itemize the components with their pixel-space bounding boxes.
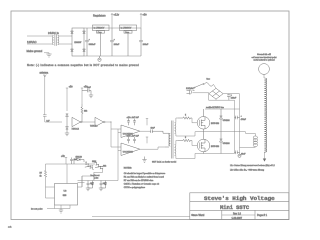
- wire sec2 to R2: [176, 141, 178, 145]
- wire halfbridge midpoint: [204, 132, 256, 136]
- +5v stub clamp: [66, 88, 68, 111]
- svg-text:Regulators: Regulators: [93, 13, 106, 17]
- svg-text:L1: 4 turns 22awg wound over b: L1: 4 turns 22awg wound over bottom (2in…: [230, 164, 276, 167]
- capacitor C6b: [133, 137, 136, 143]
- wire bottom rail: [205, 153, 235, 155]
- wire to mains ground: [44, 53, 49, 54]
- bridge rectifier BR1: [71, 28, 86, 56]
- svg-text:100uF: 100uF: [143, 44, 149, 46]
- svg-text:10k: 10k: [103, 166, 106, 168]
- wire U4 out: [140, 130, 151, 132]
- capacitor C5b: [133, 119, 136, 126]
- mosfet Q1: [197, 109, 210, 132]
- +12v tap: [111, 13, 113, 28]
- svg-text:+: +: [114, 39, 116, 41]
- capacitor C4 bypass: [82, 89, 91, 95]
- ground C4: [89, 95, 93, 98]
- wire sec2 return: [176, 154, 205, 159]
- wire mains top: [27, 35, 52, 37]
- diode D8: [88, 181, 94, 189]
- capacitor C3 100uF: [139, 28, 143, 56]
- resistor R4 pullup: [81, 104, 83, 122]
- capacitor C7 coupling: [151, 129, 165, 133]
- wire DC+ rail: [84, 27, 141, 29]
- regulator U2 L7805CV: [120, 25, 137, 56]
- svg-text:Com: Com: [98, 32, 102, 34]
- wire U5 out: [140, 147, 165, 149]
- wire T1 secondary top: [59, 35, 72, 37]
- svg-text:antenna: antenna: [40, 71, 49, 74]
- antenna symbol: [43, 75, 46, 78]
- node J1: [111, 122, 112, 123]
- driver U4 UCC37321: [121, 125, 140, 138]
- bridge rectifier BR2: [209, 88, 223, 99]
- wire BR2 minus: [209, 94, 235, 101]
- svg-text:1k: 1k: [40, 176, 42, 178]
- svg-text:+: +: [89, 39, 91, 41]
- wire G1 to G2: [82, 121, 95, 123]
- capacitor C11: [70, 158, 73, 165]
- svg-text:Mini SSTC: Mini SSTC: [220, 205, 250, 211]
- arrow to RF ground: [263, 159, 266, 162]
- svg-text:Com: Com: [125, 32, 129, 34]
- svg-text:Ground this off!: Ground this off!: [257, 53, 271, 56]
- svg-text:+: +: [231, 94, 233, 96]
- svg-text:C6 should be larger if possibl: C6 should be larger if possible as it im…: [124, 172, 165, 175]
- svg-text:rectified 170VDC bus: rectified 170VDC bus: [206, 106, 224, 109]
- wire signal bus: [111, 122, 121, 147]
- ground mains: [46, 54, 51, 57]
- +5v stub vcc: [81, 88, 83, 104]
- svg-text:IRFP450: IRFP450: [211, 146, 220, 148]
- diode D5 snubber: [220, 109, 223, 132]
- svg-text:Page # 1: Page # 1: [257, 214, 268, 217]
- svg-text:R7 and R8 can be 270/330 ohm: R7 and R8 can be 270/330 ohm: [124, 180, 154, 182]
- ground drivers: [142, 157, 146, 163]
- wire pots loop: [94, 162, 103, 172]
- svg-text:1-30-2007: 1-30-2007: [232, 218, 243, 220]
- wire interrupter out: [78, 181, 119, 183]
- wire neutral to bridge: [193, 92, 209, 95]
- diode D9: [101, 181, 107, 189]
- wire mains bottom: [27, 43, 52, 45]
- ground C13: [99, 188, 103, 191]
- wire T1 secondary bottom: [59, 43, 72, 45]
- GDT T2: [165, 121, 176, 159]
- diode D6 snubber: [220, 132, 223, 154]
- svg-text:+: +: [241, 116, 243, 118]
- svg-text:74HC14: 74HC14: [90, 125, 98, 127]
- svg-text:120VAC: 120VAC: [186, 87, 194, 90]
- wire antenna down: [43, 77, 62, 122]
- resistor R3: [44, 171, 46, 178]
- timer U3 555: [55, 184, 78, 206]
- svg-text:.1uF: .1uF: [87, 87, 92, 89]
- regulator U1 L7812CV: [93, 25, 110, 56]
- svg-text:Steve Ward: Steve Ward: [191, 214, 205, 217]
- capacitor C6a: [127, 137, 130, 143]
- svg-text:Note: (-) indicates a common n: Note: (-) indicates a common negative bu…: [27, 63, 139, 67]
- wire Vminus rail: [234, 100, 236, 153]
- svg-text:1N4148: 1N4148: [76, 157, 82, 159]
- svg-text:fuse: fuse: [207, 79, 211, 81]
- wire enable bus: [118, 129, 121, 181]
- driver U5 UCC37322: [121, 143, 140, 156]
- ground 555: [59, 210, 63, 213]
- svg-text:Steve's High Voltage: Steve's High Voltage: [204, 195, 275, 202]
- svg-text:int out point: int out point: [31, 207, 43, 210]
- wire G2 out: [105, 121, 111, 123]
- ground clamp: [65, 133, 69, 136]
- wire 555 ground: [60, 205, 62, 210]
- svg-text:UCC37322: UCC37322: [123, 152, 134, 154]
- wire Vplus rail: [239, 94, 241, 153]
- svg-text:+12v .1uF 1uF: +12v .1uF 1uF: [127, 117, 140, 119]
- svg-text:Mains ground: Mains ground: [27, 49, 43, 53]
- wire 555 top pin: [66, 164, 68, 184]
- capacitor C1 3300uF: [85, 28, 89, 56]
- inductor L2 secondary: [264, 78, 266, 152]
- wire sec1 to R1: [176, 118, 178, 123]
- diode D7: [74, 158, 84, 164]
- fuse F1: [204, 83, 213, 87]
- diode D1 clamp up: [66, 114, 69, 122]
- svg-text:IRFP450: IRFP450: [211, 123, 220, 125]
- wire pot down: [93, 172, 95, 180]
- wire int out stub: [47, 205, 70, 209]
- svg-text:10uF: 10uF: [151, 127, 156, 129]
- potentiometer VR2 10k: [93, 161, 104, 172]
- switch S1: [193, 83, 205, 90]
- capacitor C5a: [127, 119, 130, 126]
- svg-text:R1 and R2 can likely be omitte: R1 and R2 can likely be omitted from boa…: [124, 176, 165, 179]
- wire R2 to gate: [192, 141, 197, 146]
- wire R1 to gate: [192, 118, 197, 123]
- capacitor C10 bus: [235, 151, 240, 155]
- wire topload breakout: [263, 74, 265, 78]
- svg-text:metal natural is optional: metal natural is optional: [253, 59, 275, 62]
- svg-text:+5v: +5v: [142, 12, 147, 16]
- svg-text:5: 5: [185, 115, 186, 117]
- wire L1 return: [240, 146, 256, 149]
- capacitor C13: [100, 181, 103, 189]
- svg-text:NOTES:: NOTES:: [124, 168, 132, 170]
- svg-text:74HC14: 74HC14: [72, 129, 80, 131]
- +12v stub drv1: [146, 119, 148, 126]
- wire top rail: [205, 108, 240, 110]
- svg-text:UF4008: UF4008: [223, 120, 230, 122]
- resistor R2 gate: [178, 139, 192, 141]
- diode D2 clamp down: [66, 122, 69, 133]
- wire L2 bottom: [263, 152, 265, 159]
- svg-text:+5v: +5v: [69, 86, 74, 89]
- border frame: [11, 11, 289, 220]
- svg-text:In L7812CV: In L7812CV: [94, 27, 105, 29]
- svg-text:+12v .1uF 1uF: +12v .1uF 1uF: [127, 136, 140, 138]
- svg-text:C4/C5 = Tantalum or Ceramic ca: C4/C5 = Tantalum or Ceramic caps ok: [124, 182, 160, 185]
- svg-text:Rev 1.0: Rev 1.0: [233, 213, 242, 215]
- resistor R1 gate: [178, 117, 192, 119]
- potentiometer VR1 100k: [82, 160, 95, 172]
- svg-text:freq/int out: freq/int out: [91, 174, 100, 177]
- capacitor C9 bus: [235, 116, 240, 120]
- svg-text:In L7805CV: In L7805CV: [121, 27, 132, 29]
- svg-text:coil must use breakout point: coil must use breakout point: [252, 56, 277, 59]
- transformer T1: [52, 34, 59, 46]
- capacitor C2 100uF: [110, 28, 114, 56]
- capacitor C8 bus: [227, 94, 231, 101]
- inductor L1: [253, 136, 257, 147]
- capacitor C12: [87, 181, 90, 189]
- svg-text:100uF: 100uF: [231, 98, 237, 100]
- svg-text:.68uF: .68uF: [241, 154, 247, 156]
- svg-text:1N4007: 1N4007: [74, 42, 82, 44]
- wire sec1 return: [176, 132, 204, 136]
- +5v tap: [140, 13, 142, 28]
- svg-text:point: point: [94, 177, 99, 180]
- wire DC- rail: [84, 55, 141, 57]
- wire fuse to bridge: [213, 84, 216, 88]
- ground C12: [86, 188, 90, 191]
- topload: [259, 64, 270, 75]
- svg-text:UF4008: UF4008: [223, 143, 230, 145]
- svg-text:3300uF: 3300uF: [89, 44, 97, 46]
- svg-text:10k: 10k: [84, 111, 87, 113]
- mosfet Q2: [197, 132, 210, 154]
- +5v stub 555: [65, 158, 67, 165]
- svg-text:24VAC in: 24VAC in: [48, 31, 59, 35]
- wire 555 supply rail: [46, 163, 96, 165]
- inverter G1 74HC14: [72, 117, 82, 126]
- svg-text:GDT 1:1:1 on ferrite toroid: GDT 1:1:1 on ferrite toroid: [152, 160, 177, 163]
- wire long bottom: [92, 215, 190, 217]
- +12v stub drv2: [146, 137, 148, 143]
- svg-text:120VAC: 120VAC: [27, 40, 37, 44]
- svg-text:+12v: +12v: [113, 12, 119, 16]
- svg-text:sch: sch: [8, 227, 12, 229]
- wire BR2 plus: [223, 93, 239, 95]
- svg-text:555: 555: [63, 195, 67, 197]
- svg-text:U3: U3: [64, 190, 68, 192]
- svg-text:5: 5: [185, 137, 186, 139]
- svg-text:R7: R7: [40, 173, 42, 175]
- svg-text:L2: 6.5in x 2in dia, ~900 turn: L2: 6.5in x 2in dia, ~900 turns 28awg: [230, 169, 265, 172]
- svg-text:C7/C8 = polypropylene: C7/C8 = polypropylene: [124, 186, 146, 189]
- wire 555 left bus: [45, 164, 47, 171]
- plug P1: [187, 90, 192, 94]
- inverter G2 74HC14: [95, 117, 105, 126]
- title block: [190, 193, 289, 220]
- common negative symbol bridge: [238, 153, 241, 158]
- common negative symbol psu: [98, 56, 101, 61]
- wire R3 to 555 pins: [46, 177, 55, 198]
- svg-text:470uF: 470uF: [241, 119, 247, 121]
- svg-text:100uF: 100uF: [114, 44, 120, 46]
- wire 555 pin7 to pot: [78, 176, 96, 187]
